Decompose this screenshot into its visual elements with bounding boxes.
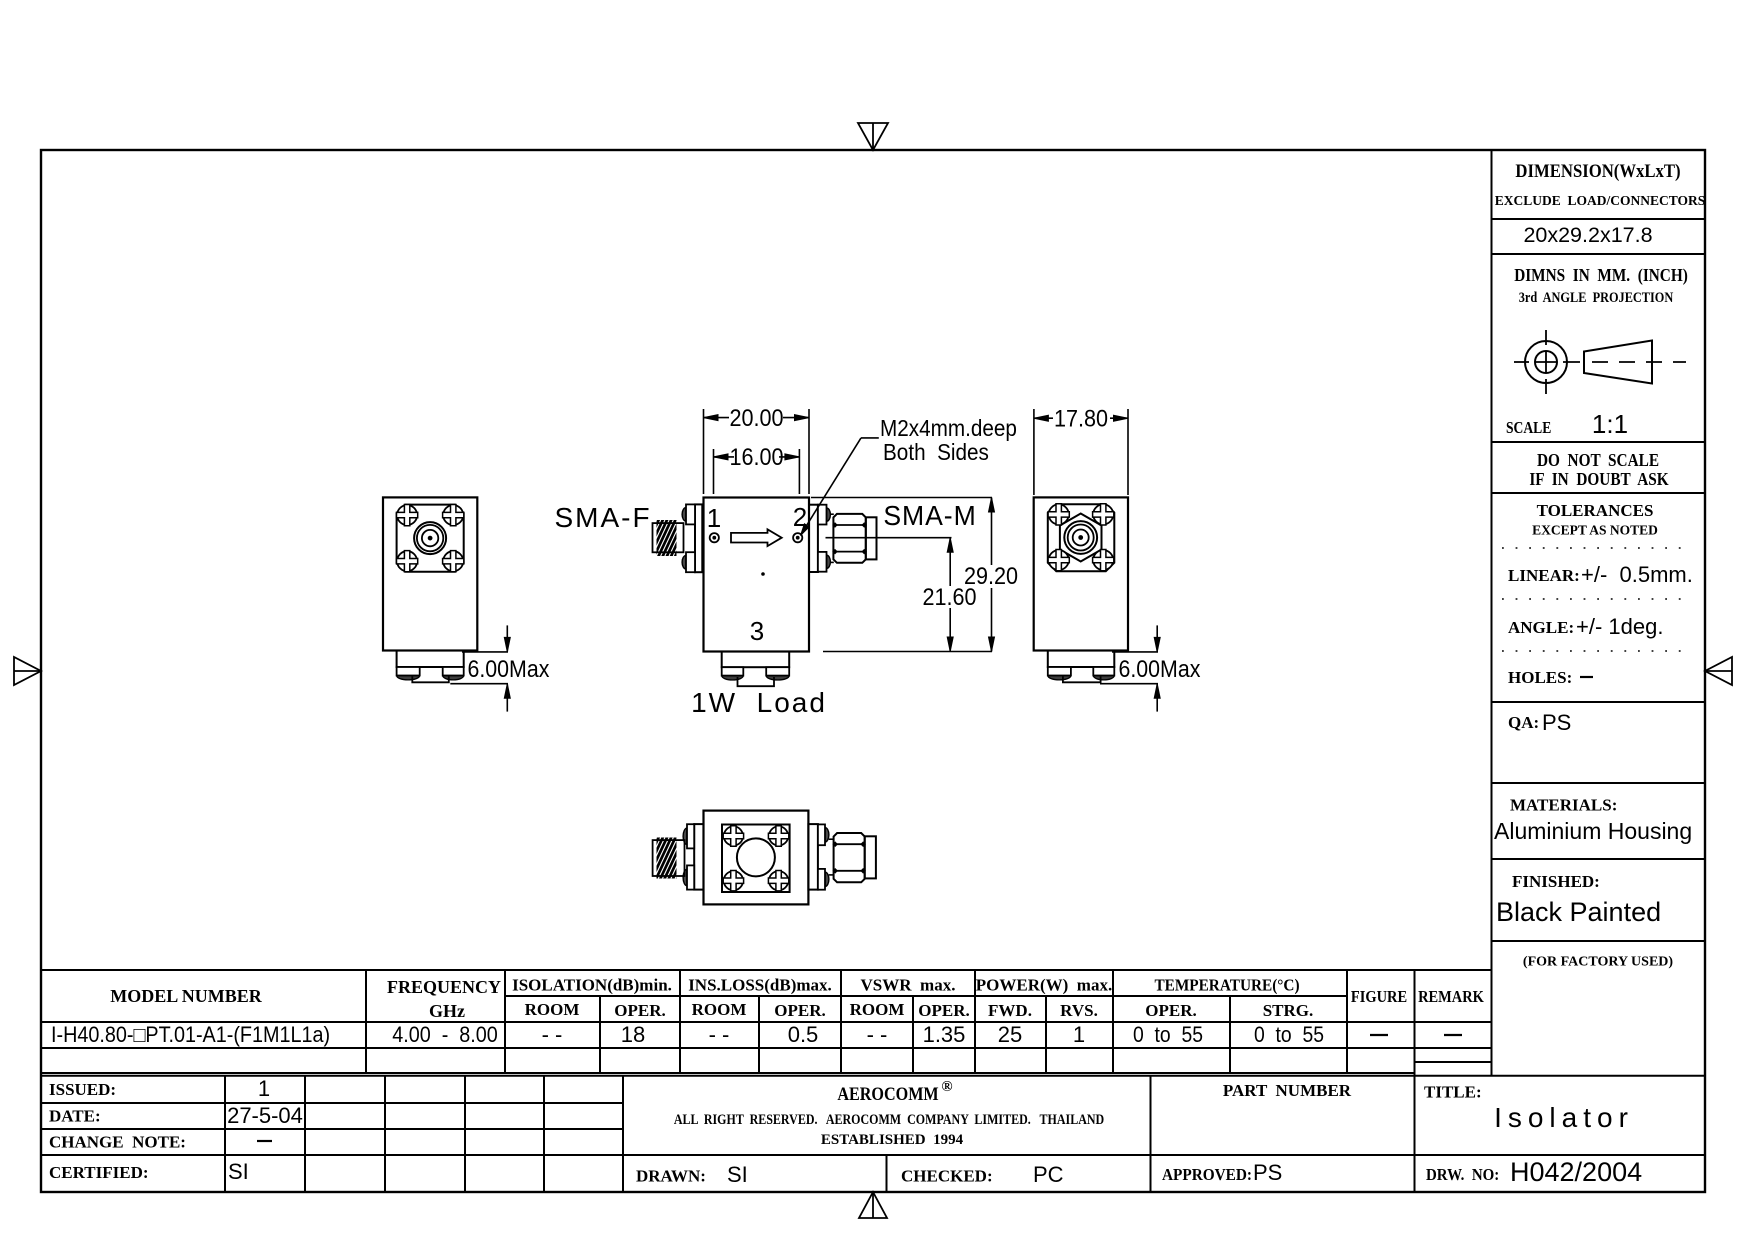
do not scale text bbox=[1529, 450, 1668, 489]
svg-text:25: 25 bbox=[998, 1022, 1022, 1047]
finished box bbox=[1496, 872, 1661, 927]
bottom view sma-m hex nut bbox=[829, 833, 866, 882]
svg-text:PART NUMBER: PART NUMBER bbox=[1223, 1081, 1352, 1100]
svg-text:GHz: GHz bbox=[429, 1001, 465, 1021]
svg-text:ROOM: ROOM bbox=[525, 1000, 580, 1019]
bottom view body outline bbox=[704, 811, 809, 905]
svg-text:(FOR FACTORY USED): (FOR FACTORY USED) bbox=[1523, 955, 1673, 970]
svg-text:SCALE: SCALE bbox=[1506, 419, 1551, 438]
svg-text:FIGURE: FIGURE bbox=[1351, 988, 1407, 1006]
svg-text:Both Sides: Both Sides bbox=[883, 439, 989, 465]
svg-text:PC: PC bbox=[1033, 1162, 1064, 1187]
m2 tapped hole note bbox=[880, 415, 1017, 465]
sma-m bottom shoulder bbox=[827, 555, 831, 568]
svg-text:ISSUED:: ISSUED: bbox=[49, 1080, 116, 1099]
right view load right screw bbox=[1093, 667, 1114, 680]
bottom view screw bottom-left bbox=[724, 871, 743, 890]
forward direction arrow bbox=[731, 529, 782, 546]
title block right column dividers bbox=[1492, 150, 1706, 1076]
right view dimension 6.00Max bbox=[1100, 625, 1201, 711]
svg-text:1: 1 bbox=[258, 1076, 270, 1101]
spec table headers bbox=[110, 976, 1484, 1022]
left view sma-f connector face bbox=[414, 522, 446, 554]
center view load left screw bbox=[722, 667, 744, 680]
bottom view sma-m top shoulder bbox=[825, 828, 829, 842]
bottom view screw top-left bbox=[724, 826, 743, 845]
svg-text:21.60: 21.60 bbox=[922, 583, 976, 610]
sma-f threaded barrel bbox=[640, 520, 695, 556]
svg-text:®: ® bbox=[941, 1079, 952, 1095]
dimension 21.60 bbox=[922, 538, 976, 652]
svg-text:0 to 55: 0 to 55 bbox=[1133, 1023, 1203, 1047]
svg-text:REMARK: REMARK bbox=[1418, 988, 1484, 1006]
svg-text:AEROCOMM: AEROCOMM bbox=[837, 1083, 939, 1105]
svg-text:HOLES:: HOLES: bbox=[1508, 668, 1572, 687]
svg-text:OPER.: OPER. bbox=[918, 1001, 969, 1020]
signature row bbox=[636, 1160, 1282, 1187]
body center mark dot bbox=[762, 573, 765, 576]
sma-f bottom shoulder bbox=[682, 555, 686, 569]
svg-text:Black Painted: Black Painted bbox=[1496, 897, 1661, 927]
svg-text:3: 3 bbox=[750, 616, 764, 646]
svg-text:RVS.: RVS. bbox=[1060, 1001, 1098, 1020]
svg-text:LINEAR:: LINEAR: bbox=[1508, 566, 1580, 585]
title box bbox=[1424, 1083, 1634, 1134]
svg-text:I-H40.80-□PT.01-A1-(F1M1L1a): I-H40.80-□PT.01-A1-(F1M1L1a) bbox=[51, 1023, 330, 1047]
left view body outline bbox=[383, 497, 477, 650]
right view flange screw bottom-right bbox=[1093, 550, 1113, 570]
svg-text:CERTIFIED:: CERTIFIED: bbox=[49, 1163, 149, 1182]
bottom view screw top-right bbox=[769, 826, 788, 845]
svg-text:0 to 55: 0 to 55 bbox=[1254, 1023, 1324, 1047]
right view load left screw bbox=[1048, 667, 1071, 680]
spec table data row bbox=[51, 1022, 1462, 1047]
left view flange screw bottom-right bbox=[443, 551, 463, 571]
svg-text:APPROVED:: APPROVED: bbox=[1162, 1166, 1252, 1184]
svg-text:ANGLE:: ANGLE: bbox=[1508, 618, 1574, 637]
svg-text:IF IN DOUBT ASK: IF IN DOUBT ASK bbox=[1529, 469, 1668, 489]
svg-text:1: 1 bbox=[1073, 1022, 1085, 1047]
left view flange screw bottom-left bbox=[397, 551, 417, 571]
svg-text:DRAWN:: DRAWN: bbox=[636, 1167, 706, 1186]
sma-m centerline bbox=[826, 537, 952, 539]
left view dimension 6.00Max bbox=[450, 625, 550, 711]
svg-text:CHECKED:: CHECKED: bbox=[901, 1167, 993, 1186]
right view flange screw top-right bbox=[1093, 504, 1113, 524]
m2 tapped hole leader bbox=[801, 438, 879, 536]
dimension 16.00 bbox=[714, 443, 800, 494]
port 2 hole bbox=[793, 533, 802, 542]
svg-text:0.5: 0.5 bbox=[788, 1022, 819, 1047]
drawing frame border bbox=[41, 150, 1705, 1192]
svg-text:SI: SI bbox=[228, 1159, 249, 1184]
bottom view screw bottom-right bbox=[769, 871, 788, 890]
svg-text:OPER.: OPER. bbox=[614, 1001, 665, 1020]
svg-text:1W Load: 1W Load bbox=[691, 687, 827, 718]
svg-text:20.00: 20.00 bbox=[729, 404, 783, 431]
sma-m mounting plate side bbox=[809, 505, 818, 572]
svg-text:PS: PS bbox=[1542, 710, 1571, 735]
sma-m top shoulder bbox=[827, 508, 831, 521]
bottom view center hole bbox=[737, 838, 775, 876]
svg-text:H042/2004: H042/2004 bbox=[1510, 1157, 1642, 1187]
dimension box text bbox=[1495, 160, 1706, 208]
svg-text:DRW. NO:: DRW. NO: bbox=[1426, 1166, 1499, 1184]
svg-text:EXCLUDE LOAD/CONNECTORS: EXCLUDE LOAD/CONNECTORS bbox=[1495, 193, 1706, 208]
sma-m hex nut side bbox=[830, 514, 866, 563]
svg-text:+/- 0.5mm.: +/- 0.5mm. bbox=[1581, 562, 1693, 587]
svg-text:ESTABLISHED 1994: ESTABLISHED 1994 bbox=[821, 1132, 964, 1148]
left view load right screw bbox=[443, 667, 464, 680]
left view flange screw top-left bbox=[397, 505, 417, 525]
svg-text:18: 18 bbox=[621, 1022, 645, 1047]
bottom view sma-f threaded barrel bbox=[637, 838, 694, 879]
left view load step bbox=[397, 651, 464, 668]
spec table grid bbox=[41, 970, 1705, 1192]
right view sma flange plate bbox=[1048, 504, 1115, 571]
right view body outline bbox=[1034, 497, 1128, 650]
centering mark bottom bbox=[859, 1192, 887, 1218]
bottom view sma-m plate bbox=[808, 824, 818, 890]
sma-f mounting plate side bbox=[695, 504, 702, 572]
right view load bottom tab bbox=[1063, 677, 1101, 683]
svg-text:EXCEPT AS NOTED: EXCEPT AS NOTED bbox=[1532, 523, 1658, 538]
right view flange screw bottom-left bbox=[1049, 550, 1069, 570]
svg-text:1: 1 bbox=[707, 503, 721, 533]
qa box bbox=[1508, 710, 1571, 735]
center view body outline bbox=[704, 498, 810, 652]
center view load right screw bbox=[766, 667, 789, 680]
right view sma-m connector face bbox=[1064, 521, 1097, 554]
bottom view sma-m bottom shoulder bbox=[825, 872, 829, 886]
center view load bottom tab bbox=[738, 677, 775, 686]
dimension 20.00 bbox=[704, 404, 810, 494]
svg-text:6.00Max: 6.00Max bbox=[1119, 655, 1201, 682]
svg-text:16.00: 16.00 bbox=[729, 443, 783, 470]
svg-text:4.00 - 8.00: 4.00 - 8.00 bbox=[392, 1023, 498, 1047]
svg-text:MODEL NUMBER: MODEL NUMBER bbox=[110, 986, 263, 1006]
svg-text:DIMNS IN MM. (INCH): DIMNS IN MM. (INCH) bbox=[1514, 265, 1688, 285]
scale text bbox=[1506, 409, 1628, 439]
company box aerocomm bbox=[674, 1079, 1105, 1148]
svg-text:INS.LOSS(dB)max.: INS.LOSS(dB)max. bbox=[688, 976, 832, 995]
sma-f top shoulder bbox=[682, 508, 686, 522]
tolerances box bbox=[1502, 501, 1693, 687]
svg-text:SMA-M: SMA-M bbox=[883, 499, 976, 531]
materials box bbox=[1494, 796, 1692, 845]
left view load bottom tab bbox=[412, 677, 449, 683]
bottom view load flange plate bbox=[722, 825, 790, 893]
svg-text:SI: SI bbox=[727, 1162, 748, 1187]
bottom view sma-f bottom shoulder bbox=[683, 869, 687, 885]
sma-m barrel bbox=[866, 517, 877, 559]
svg-text:DO NOT SCALE: DO NOT SCALE bbox=[1537, 450, 1659, 470]
svg-text:17.80: 17.80 bbox=[1054, 404, 1108, 431]
svg-text:MATERIALS:: MATERIALS: bbox=[1510, 796, 1617, 815]
right view flange screw top-left bbox=[1049, 504, 1069, 524]
svg-text:FINISHED:: FINISHED: bbox=[1512, 872, 1600, 891]
svg-text:FREQUENCY: FREQUENCY bbox=[387, 977, 501, 997]
svg-text:27-5-04: 27-5-04 bbox=[227, 1103, 303, 1128]
svg-text:DIMENSION(WxLxT): DIMENSION(WxLxT) bbox=[1515, 160, 1680, 182]
svg-text:- -: - - bbox=[542, 1022, 563, 1047]
centering mark top bbox=[858, 123, 888, 150]
third angle projection symbol bbox=[1514, 330, 1686, 394]
revision block texts bbox=[49, 1076, 303, 1184]
svg-text:POWER(W) max.: POWER(W) max. bbox=[976, 976, 1112, 995]
bottom view sma-m barrel bbox=[865, 836, 876, 878]
svg-text:DATE:: DATE: bbox=[49, 1107, 101, 1126]
left view load left screw bbox=[397, 667, 420, 680]
drawing number box bbox=[1426, 1157, 1642, 1187]
svg-text:CHANGE NOTE:: CHANGE NOTE: bbox=[49, 1133, 186, 1152]
svg-text:STRG.: STRG. bbox=[1263, 1001, 1314, 1020]
center view load step bbox=[722, 652, 790, 668]
svg-text:20x29.2x17.8: 20x29.2x17.8 bbox=[1523, 223, 1652, 247]
svg-text:ALL RIGHT RESERVED. AEROCO: ALL RIGHT RESERVED. AEROCOMM COMPANY LIM… bbox=[674, 1111, 1105, 1128]
svg-text:TEMPERATURE(°C): TEMPERATURE(°C) bbox=[1154, 977, 1299, 995]
svg-text:SMA-F: SMA-F bbox=[554, 502, 651, 533]
svg-text:ROOM: ROOM bbox=[850, 1000, 905, 1019]
bottom view sma-f plate bbox=[694, 824, 703, 890]
svg-text:Aluminium Housing: Aluminium Housing bbox=[1494, 818, 1692, 844]
svg-text:1:1: 1:1 bbox=[1592, 409, 1628, 439]
dimns in mm text bbox=[1514, 265, 1688, 305]
left view sma flange plate bbox=[397, 505, 464, 572]
svg-text:ROOM: ROOM bbox=[692, 1000, 747, 1019]
centering mark left bbox=[14, 657, 41, 685]
svg-text:TITLE:: TITLE: bbox=[1424, 1083, 1482, 1102]
svg-text:OPER.: OPER. bbox=[774, 1001, 825, 1020]
svg-text:Isolator: Isolator bbox=[1494, 1102, 1634, 1133]
svg-text:3rd ANGLE PROJECTION: 3rd ANGLE PROJECTION bbox=[1519, 289, 1674, 305]
left view flange screw top-right bbox=[443, 505, 463, 525]
svg-text:+/- 1deg.: +/- 1deg. bbox=[1576, 614, 1663, 639]
svg-text:PS: PS bbox=[1253, 1160, 1282, 1185]
svg-text:FWD.: FWD. bbox=[988, 1001, 1032, 1020]
svg-text:- -: - - bbox=[709, 1022, 730, 1047]
svg-text:ISOLATION(dB)min.: ISOLATION(dB)min. bbox=[512, 976, 672, 995]
svg-text:VSWR max.: VSWR max. bbox=[861, 976, 956, 995]
dimension 17.80 bbox=[1034, 404, 1128, 495]
svg-text:- -: - - bbox=[867, 1022, 888, 1047]
right view hex nut face bbox=[1060, 514, 1102, 562]
revision and title block grid bbox=[41, 1076, 1705, 1192]
centering mark right bbox=[1705, 657, 1732, 685]
port 1 hole bbox=[710, 533, 719, 542]
svg-text:QA:: QA: bbox=[1508, 713, 1539, 732]
svg-text:6.00Max: 6.00Max bbox=[468, 655, 550, 682]
bottom view sma-f top shoulder bbox=[683, 828, 687, 844]
svg-text:OPER.: OPER. bbox=[1145, 1001, 1196, 1020]
svg-text:M2x4mm.deep: M2x4mm.deep bbox=[880, 415, 1017, 441]
right view load step bbox=[1048, 651, 1115, 668]
svg-text:TOLERANCES: TOLERANCES bbox=[1537, 501, 1654, 520]
svg-text:1.35: 1.35 bbox=[923, 1022, 966, 1047]
dimension 29.20 bbox=[811, 498, 1018, 652]
